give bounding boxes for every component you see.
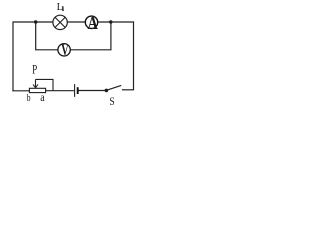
rheostat slider arm wire [36,79,54,90]
svg-text:L: L [57,2,63,13]
switch S pivot dot [105,89,109,93]
rheostat slider arrow [33,79,38,87]
svg-text:A: A [88,12,99,33]
label a [40,92,45,105]
rheostat P box [29,88,45,92]
label b [27,93,31,104]
wire rheostat to battery [46,90,74,92]
svg-text:b: b [27,93,31,104]
battery cell long plate [74,84,76,97]
svg-text:P: P [32,63,37,77]
ammeter A [85,12,98,33]
wire right vertical [133,21,135,90]
node junction dot left [34,20,37,23]
label S [109,95,114,108]
label L1 [57,2,63,13]
lamp L1 [53,15,67,29]
voltmeter V [58,41,70,59]
node junction dot right [109,20,112,23]
svg-text:a: a [40,92,45,105]
wire voltmeter branch left: down from node [36,22,58,50]
wire bottom left to rheostat [12,90,29,92]
battery cell short plate [77,87,79,94]
svg-text:S: S [109,95,114,108]
label P [32,63,37,77]
svg-text:V: V [61,41,69,59]
wire left vertical [12,21,14,91]
wire battery to switch pivot [78,90,106,92]
wire voltmeter branch right: to node after ammeter [71,22,111,50]
switch S fixed contact [122,89,134,91]
wire top from left corner to right corner [13,21,134,23]
switch S lever [107,85,121,90]
